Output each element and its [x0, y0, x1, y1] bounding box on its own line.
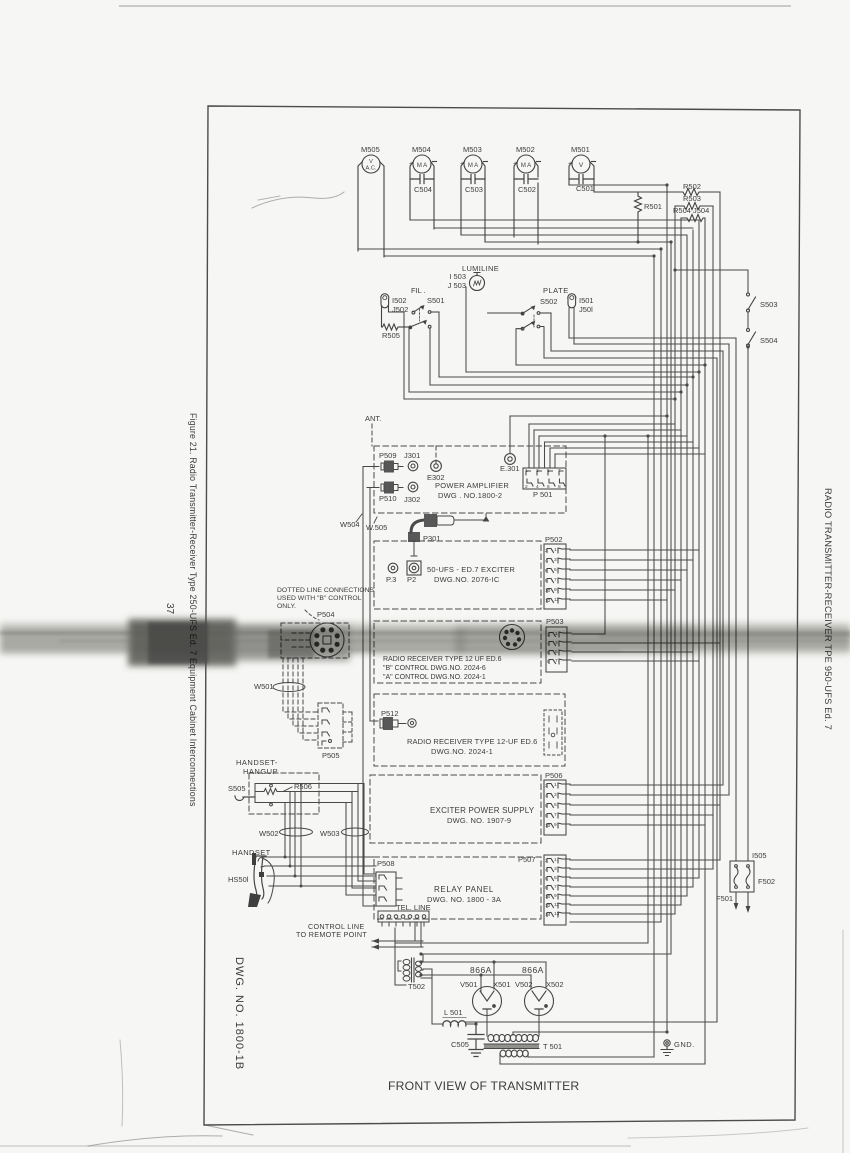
svg-text:9: 9 [554, 587, 557, 593]
lamp section labels [382, 264, 778, 345]
svg-text:TO REMOTE POINT: TO REMOTE POINT [296, 930, 367, 939]
svg-text:13: 13 [554, 911, 560, 917]
svg-text:37: 37 [164, 603, 175, 615]
svg-text:8: 8 [545, 813, 548, 819]
svg-text:C501: C501 [576, 184, 594, 193]
dotted connector on receiver [544, 710, 562, 755]
svg-text:50-UFS - ED.7 EXCITER: 50-UFS - ED.7 EXCITER [427, 565, 515, 574]
svg-text:12: 12 [545, 598, 551, 604]
svg-text:7: 7 [554, 812, 557, 818]
svg-text:E302: E302 [427, 473, 445, 482]
svg-text:1: 1 [554, 857, 557, 863]
svg-text:10: 10 [545, 894, 551, 900]
svg-text:ANT.: ANT. [365, 414, 381, 423]
switch S501 [389, 305, 440, 329]
svg-text:P2: P2 [407, 575, 416, 584]
svg-text:6: 6 [545, 876, 548, 882]
svg-text:W503: W503 [320, 829, 340, 838]
svg-text:P512: P512 [381, 709, 399, 718]
svg-text:GND.: GND. [674, 1040, 695, 1049]
svg-text:4: 4 [545, 793, 548, 799]
resistor R504 / jack J504 [673, 206, 709, 222]
svg-text:5: 5 [554, 802, 557, 808]
capacitor C504 [410, 175, 434, 184]
svg-text:DOTTED LINE CONNECTIONS: DOTTED LINE CONNECTIONS [277, 587, 375, 594]
resistor R506 [263, 787, 292, 795]
meter M504 [409, 145, 437, 229]
connector P502 [544, 544, 570, 609]
svg-text:J302: J302 [404, 495, 420, 504]
connector P505 [318, 703, 343, 748]
svg-text:9: 9 [554, 893, 557, 899]
svg-text:12: 12 [545, 903, 551, 909]
svg-text:RADIO RECEIVER TYPE 12-UF: RADIO RECEIVER TYPE 12-UF ED.6 [407, 737, 537, 746]
svg-text:DWG.NO. 2076-IC: DWG.NO. 2076-IC [434, 575, 500, 584]
svg-text:P510: P510 [379, 494, 397, 503]
switch S504 [747, 329, 756, 348]
svg-text:A.C.: A.C. [366, 166, 377, 172]
svg-text:I 503: I 503 [449, 272, 466, 281]
svg-text:EXCITER POWER SUPPLY: EXCITER POWER SUPPLY [430, 806, 535, 815]
svg-text:P507: P507 [518, 855, 536, 864]
tube leads [487, 1010, 539, 1036]
svg-text:HS50l: HS50l [228, 875, 249, 884]
svg-text:I502: I502 [392, 296, 407, 305]
cable W505 wire [367, 488, 378, 722]
page number 37 [164, 603, 175, 615]
svg-text:P301: P301 [423, 534, 441, 543]
svg-text:M501: M501 [571, 145, 590, 154]
svg-text:866A: 866A [470, 965, 492, 975]
lamp I501 [568, 294, 576, 308]
svg-text:S503: S503 [760, 300, 778, 309]
svg-text:7: 7 [554, 577, 557, 583]
svg-text:T502: T502 [408, 982, 425, 991]
plug P510 [367, 482, 403, 494]
svg-text:HANDSET-: HANDSET- [236, 758, 278, 767]
jack E302 [431, 461, 442, 472]
svg-text:USED WITH "B" CONTROL: USED WITH "B" CONTROL [277, 595, 362, 602]
lamp I502 [381, 294, 389, 308]
svg-text:R501: R501 [644, 202, 662, 211]
svg-text:9: 9 [554, 822, 557, 828]
svg-text:S501: S501 [427, 296, 445, 305]
svg-text:F502: F502 [758, 877, 775, 886]
svg-text:"A" CONTROL DWG.NO. 2024-1: "A" CONTROL DWG.NO. 2024-1 [383, 674, 486, 681]
svg-text:R503: R503 [683, 194, 701, 203]
svg-text:6: 6 [545, 568, 548, 574]
svg-text:7: 7 [555, 658, 558, 664]
svg-text:10: 10 [545, 588, 551, 594]
svg-text:Figure 21. Radio Transmitter: Figure 21. Radio Transmitter-Receiver Ty… [188, 413, 198, 807]
svg-text:J502: J502 [392, 305, 408, 314]
module box: 50-UFS ED.7 EXCITER [374, 541, 541, 609]
switch S502 [488, 307, 551, 330]
svg-text:V501: V501 [460, 980, 478, 989]
page crease marks [88, 192, 843, 1153]
svg-text:LUMILINE: LUMILINE [462, 264, 499, 273]
svg-text:W501: W501 [254, 682, 274, 691]
wire junctions [419, 183, 749, 1033]
resistor R505 [382, 306, 411, 330]
svg-text:1: 1 [554, 782, 557, 788]
svg-text:P508: P508 [377, 859, 395, 868]
svg-text:DWG. NO. 1800-1B: DWG. NO. 1800-1B [233, 957, 245, 1070]
svg-text:M503: M503 [463, 145, 482, 154]
connector P507 [544, 855, 570, 925]
svg-text:6: 6 [545, 803, 548, 809]
svg-text:C503: C503 [465, 185, 483, 194]
module box: receiver A/B control [374, 621, 541, 683]
svg-text:DWG. NO. 1907-9: DWG. NO. 1907-9 [447, 816, 511, 825]
svg-text:FRONT VIEW OF TRANSMITTER: FRONT VIEW OF TRANSMITTER [388, 1079, 579, 1093]
transformer T501 [488, 1034, 539, 1041]
round connector in band (unlabelled) [500, 625, 525, 650]
resistor R502 [594, 182, 720, 196]
resistor R503 [675, 194, 713, 210]
svg-text:8: 8 [545, 578, 548, 584]
svg-text:V502: V502 [515, 980, 533, 989]
svg-text:P509: P509 [379, 451, 397, 460]
svg-text:P504: P504 [317, 610, 335, 619]
svg-text:S504: S504 [760, 336, 778, 345]
svg-text:7: 7 [554, 884, 557, 890]
cable W504 wire [363, 467, 375, 907]
handset cable to P508 [258, 857, 376, 886]
jack P2 [407, 542, 421, 575]
svg-text:X501: X501 [493, 980, 511, 989]
svg-text:P.3: P.3 [386, 575, 396, 584]
dwg number vertical [233, 957, 245, 1070]
meters row [358, 145, 596, 257]
svg-text:7: 7 [558, 468, 561, 474]
left margin caption: Figure 21 [188, 413, 198, 807]
svg-text:1: 1 [554, 547, 557, 553]
svg-text:M A: M A [521, 163, 531, 169]
svg-text:V: V [579, 162, 584, 169]
svg-text:DWG . NO.1800-2: DWG . NO.1800-2 [438, 491, 502, 500]
svg-text:S505: S505 [228, 784, 246, 793]
svg-text:S502: S502 [540, 297, 558, 306]
coax plug P301 [408, 514, 489, 542]
border frame [204, 106, 800, 1125]
module box: RADIO RECEIVER [374, 694, 565, 766]
capacitor C503 [461, 175, 485, 184]
right margin caption [823, 488, 833, 730]
cable bundle B through W503 [346, 784, 376, 896]
svg-text:PLATE: PLATE [543, 286, 569, 295]
svg-text:M A: M A [417, 163, 427, 169]
svg-text:3: 3 [554, 866, 557, 872]
transformer T502 [403, 958, 421, 982]
svg-text:5: 5 [554, 567, 557, 573]
svg-text:14: 14 [545, 912, 551, 918]
svg-text:M504: M504 [412, 145, 431, 154]
svg-text:4: 4 [545, 558, 548, 564]
svg-text:M A: M A [468, 163, 478, 169]
svg-text:ONLY.: ONLY. [277, 603, 296, 610]
svg-text:F501: F501 [716, 894, 733, 903]
svg-text:DWG. NO. 1800 - 3A: DWG. NO. 1800 - 3A [427, 895, 501, 904]
scan edge mark top [120, 5, 790, 7]
scanner smudge band [0, 619, 850, 666]
meter M501 [568, 145, 596, 193]
scan edge mark bottom [0, 1145, 630, 1147]
meter M505 [358, 145, 384, 257]
meter M502 [513, 145, 541, 244]
hangup box internal wires [255, 784, 364, 803]
jack by P512 [408, 719, 416, 727]
svg-text:R505: R505 [382, 331, 400, 340]
svg-text:I501: I501 [579, 296, 594, 305]
capacitor C502 [514, 175, 538, 184]
svg-text:4: 4 [545, 867, 548, 873]
svg-text:2: 2 [545, 548, 548, 554]
cable bundle A through W502 [285, 784, 301, 887]
plug P509 [367, 461, 403, 473]
svg-text:P506: P506 [545, 771, 563, 780]
svg-text:DWG.NO. 2024-1: DWG.NO. 2024-1 [431, 747, 493, 756]
ground GND [661, 1040, 673, 1056]
svg-text:RELAY PANEL: RELAY PANEL [434, 885, 494, 894]
svg-text:W502: W502 [259, 829, 279, 838]
svg-text:1: 1 [525, 468, 528, 474]
meter M503 [460, 145, 488, 242]
svg-text:P502: P502 [545, 535, 563, 544]
svg-text:C504: C504 [414, 185, 432, 194]
svg-text:E.301: E.301 [500, 464, 520, 473]
jack P3 [388, 563, 398, 573]
svg-text:J 503: J 503 [448, 281, 466, 290]
wire bus: right-side vertical harness [404, 185, 748, 1064]
ground below C505 [469, 1050, 483, 1057]
svg-text:8: 8 [547, 659, 550, 665]
svg-text:HANGUP: HANGUP [243, 767, 278, 776]
svg-text:RADIO RECEIVER TYPE 12 UF ED: RADIO RECEIVER TYPE 12 UF ED.6 [383, 656, 502, 663]
svg-text:L 501: L 501 [444, 1008, 463, 1017]
svg-text:V: V [369, 159, 373, 165]
connector P506 [544, 780, 570, 835]
cable W501 (dashed) [281, 633, 318, 740]
svg-text:10: 10 [545, 823, 551, 829]
svg-text:3: 3 [554, 792, 557, 798]
svg-text:M502: M502 [516, 145, 535, 154]
svg-text:5: 5 [547, 468, 550, 474]
switch S503 [747, 293, 756, 312]
svg-text:5: 5 [554, 875, 557, 881]
svg-text:M505: M505 [361, 145, 380, 154]
connector P508 [376, 872, 402, 906]
module box: RELAY PANEL [374, 857, 541, 919]
svg-text:8: 8 [545, 885, 548, 891]
svg-text:W.505: W.505 [366, 523, 387, 532]
svg-text:J50l: J50l [579, 305, 593, 314]
svg-text:T 501: T 501 [543, 1042, 562, 1051]
connector stub wires [570, 550, 729, 922]
T501 leads [487, 1032, 528, 1064]
svg-text:2: 2 [545, 783, 548, 789]
svg-text:P 501: P 501 [533, 490, 552, 499]
connector P503 [546, 627, 571, 672]
svg-text:I505: I505 [752, 851, 767, 860]
svg-text:R502: R502 [683, 182, 701, 191]
lamp I503 LUMILINE [470, 273, 485, 291]
module box: EXCITER POWER SUPPLY [370, 775, 541, 843]
svg-text:11: 11 [554, 902, 559, 908]
svg-text:C505: C505 [451, 1040, 469, 1049]
svg-text:3: 3 [554, 557, 557, 563]
resistor R501 vertical [635, 192, 662, 242]
svg-text:8: 8 [558, 484, 561, 490]
svg-text:3: 3 [536, 468, 539, 474]
svg-text:11: 11 [554, 597, 559, 603]
svg-text:866A: 866A [522, 965, 544, 975]
svg-text:C502: C502 [518, 185, 536, 194]
svg-text:P505: P505 [322, 751, 340, 760]
module box: POWER AMPLIFIER [374, 446, 566, 513]
svg-text:X502: X502 [546, 980, 564, 989]
svg-text:J301: J301 [404, 451, 420, 460]
svg-text:POWER AMPLIFIER: POWER AMPLIFIER [435, 481, 509, 490]
T502 wiring [395, 928, 432, 985]
jack J301 [408, 461, 418, 471]
jack E301 [505, 454, 516, 465]
jack J302 [408, 482, 418, 492]
connector P501 [523, 468, 566, 489]
svg-text:2: 2 [525, 484, 528, 490]
svg-text:"B" CONTROL DWG.NO. 2024-6: "B" CONTROL DWG.NO. 2024-6 [383, 665, 486, 672]
svg-text:R504 J504: R504 J504 [673, 206, 709, 215]
svg-text:FIL .: FIL . [411, 286, 426, 295]
capacitor C501 [569, 175, 594, 184]
svg-text:RADIO TRANSMITTER-RECEIVER TPE: RADIO TRANSMITTER-RECEIVER TPE 950-UFS E… [823, 488, 833, 730]
wire rows: horizontal harness runs [358, 185, 748, 1064]
switch S505 hook [235, 796, 255, 800]
svg-text:2: 2 [545, 858, 548, 864]
